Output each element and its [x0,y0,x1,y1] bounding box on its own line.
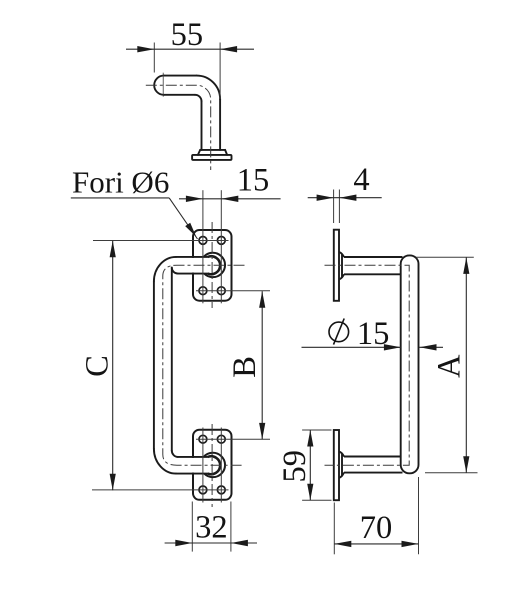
arrow: C bottom (points down) [110,474,116,491]
centerline: front grip + necks axis [163,265,245,465]
svg-text:15: 15 [237,162,270,198]
hole bottom-left of upper plate [199,287,207,295]
ext line: hole verticals lower plate right [220,428,222,503]
dim line: 59 [309,430,311,500]
svg-text:32: 32 [195,509,228,545]
side view: upper boss flare top [339,252,344,257]
arrow: 4 right (points left) [339,195,356,201]
front view: grip tube left edge [153,282,155,449]
ext line: 55 right (merges with tube edge) [219,43,221,100]
arrow: Fori leader (points down-right) [185,223,196,237]
centerline: front lower plate vertical [211,424,213,507]
dim line: C [112,241,114,491]
centerline: side view neck + grip axis [325,265,410,465]
arrow: 15 right (points left) [221,196,238,202]
ext line: 55 left [153,43,155,73]
front view: bottom bend outer arc [154,449,176,474]
arrow: 59 bottom (points down) [307,484,313,501]
front view: top neck bottom edge [178,273,208,275]
side view: upper boss flare bottom [339,274,344,279]
ext line: A top [416,256,474,258]
leader: Fori dia6 underline [71,197,169,199]
hole bottom-right of upper plate [217,287,225,295]
dim line: 32 [165,542,257,544]
front view: white mask of bottom neck over plate edge [174,458,205,473]
arrow: 55 left (points right) [137,46,154,52]
centerline: top view tube axis [146,85,211,170]
svg-text:B: B [227,356,263,378]
arrow: A bottom (points down) [463,456,469,473]
arrow: 15 left (points right) [186,196,203,202]
dim line: 70 [334,543,418,545]
top view: flange cone right side [225,150,227,155]
top view: flange cone top line [200,149,225,151]
arrow: dia15 left (points right) [384,344,401,350]
leader: Fori dia6 diagonal [169,198,197,239]
label: diameter symbol of dia 15 [329,319,349,345]
top view: tube top edge [164,75,197,77]
ext line: A bottom [425,472,478,474]
front view: top tube-end outer arc [204,253,225,277]
svg-text:59: 59 [277,450,313,483]
side view: grip tube (vertical, rounded ends) [401,255,419,473]
ext line: 70 left [333,503,335,555]
ext line: B bottom / hole row [196,438,270,440]
hole top-left of upper plate [199,237,207,245]
svg-text:15: 15 [357,316,390,352]
ext line: 15 right through upper plate holes [220,190,222,303]
arrow: 55 right (points left) [220,46,237,52]
front view: white mask of top neck over plate edge [174,258,205,273]
dim line: dia 15 leader right part [420,346,444,348]
arrow: C top (points up) [110,241,116,258]
front view: bottom neck top edge [178,456,208,458]
front view: bottom neck bottom edge [176,473,208,475]
arrow: B top (points up) [259,291,265,308]
dim line: B [261,291,263,439]
front view: top neck top edge [176,256,208,258]
svg-text:70: 70 [360,510,393,546]
hole top-right of lower plate [217,435,225,443]
front view: bottom tube-end outer arc [204,453,225,477]
centerline: front upper plate vertical [211,222,213,308]
svg-text:A: A [432,354,468,378]
dim line: 15 [179,198,281,200]
front view: bottom tube-end inner arc [208,456,220,474]
ext line: 59 top [302,429,331,431]
hole bottom-left of lower plate [199,486,207,494]
arrow: 59 top (points up) [307,430,313,447]
dim line: 4 [308,197,382,199]
arrow: A top (points up) [463,257,469,274]
top view: flange cone left side [198,150,200,155]
ext line: 59 bottom [302,499,331,501]
arrow: 4 left (points right) [317,195,334,201]
front view: upper mounting plate [193,230,232,301]
hole bottom-right of lower plate [217,486,225,494]
arrow: 32 right (points left) [231,540,248,546]
side view: lower boss flare top [339,452,344,457]
front view: bottom bend inner arc [172,451,178,457]
top view: vertical tube left edge [201,101,203,150]
dim line: A [465,257,467,472]
front view: top tube-end inner arc [208,256,220,274]
side view: bottom neck top edge [344,456,401,458]
ext line: B top / hole row [196,290,270,292]
side view: lower boss flare bottom [339,473,344,478]
arrow: 70 left (points left) [334,541,351,547]
ext line: 32 right [230,502,232,552]
ext line: 32 left [191,502,193,552]
front view: grip tube right edge [171,268,173,451]
arrow: dia15 right (points left) [420,344,437,350]
front view: top bend outer arc [154,257,176,282]
top view: flange base plate [192,155,231,160]
arrow: 32 left (points right) [175,540,192,546]
centerline: top view cap vertical tick [162,73,164,97]
ext line: 70 right [418,477,420,554]
side view: upper wall plate [334,230,339,301]
front view: plate holes [199,237,225,494]
ext line: 4 dim right [338,190,340,224]
front view: top bend inner arc [172,268,178,274]
side view: lower boss collar edge [341,453,343,476]
side view: lower wall plate [334,430,339,500]
side view: top neck bottom edge [344,273,401,275]
top view: bend inner arc [195,95,202,102]
svg-text:Fori Ø6: Fori Ø6 [72,165,169,200]
arrow: 70 right (points right) [402,541,419,547]
ext line: C top / hole row [93,240,229,242]
top view: bend outer arc [197,76,221,100]
ext line: 4 dim left [333,190,335,224]
side view: upper boss collar edge [341,254,343,278]
top view: tube left end cap [154,76,164,95]
front view: lower mounting plate [193,430,232,500]
top view: vertical tube right edge [219,99,221,150]
ext line: 15 left through upper plate holes [202,190,204,303]
hole top-right of upper plate [217,237,225,245]
top view: tube bottom edge [164,94,195,96]
dim line: dia 15 leader left part [302,346,401,348]
svg-text:4: 4 [353,162,369,198]
side view: top neck top edge [344,256,403,258]
ext line: C bottom / hole row [92,489,229,491]
arrow: B bottom (points down) [259,423,265,440]
svg-text:C: C [79,355,115,377]
svg-text:55: 55 [171,17,204,53]
hole top-left of lower plate [199,435,207,443]
dim line: 55 [126,48,254,50]
ext line: hole verticals lower plate left [202,428,204,503]
side view: bottom neck bottom edge [344,472,403,474]
